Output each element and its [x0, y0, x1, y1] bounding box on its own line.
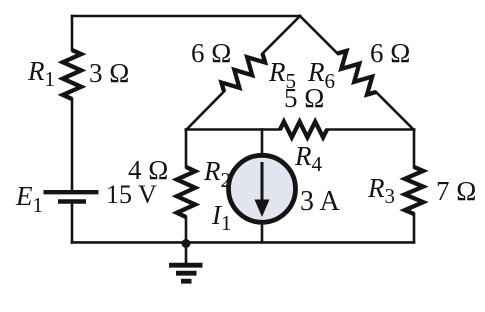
label E1	[16, 183, 43, 210]
wire left diagonal upper segment	[263, 16, 301, 54]
wire R2 bottom stub	[185, 217, 188, 242]
wire middle rail right of R4	[327, 128, 414, 131]
label 4 ohm	[128, 157, 168, 184]
label R4	[295, 143, 322, 170]
resistor R4	[280, 122, 327, 138]
current source arrow shaft	[261, 162, 264, 203]
wire R3 bottom stub	[413, 214, 416, 242]
resistor R5	[221, 54, 265, 92]
wire right diagonal lower segment	[376, 92, 414, 130]
wire R3 top stub	[413, 130, 416, 168]
label I1	[212, 202, 232, 229]
label 7 ohm	[436, 178, 476, 205]
label R5	[269, 59, 296, 86]
ground bar 2	[176, 271, 197, 276]
wire R1 bottom to battery	[71, 99, 74, 190]
wire right diagonal upper segment	[300, 16, 338, 54]
resistor R6	[338, 51, 377, 95]
wire current source bottom stub	[261, 224, 264, 242]
label R1	[28, 58, 55, 85]
wire battery to bottom rail	[71, 204, 74, 243]
label R2	[204, 158, 231, 185]
label 3 A	[300, 188, 340, 216]
wire left diagonal lower segment	[186, 92, 224, 131]
label R3	[368, 175, 395, 202]
ground bar 1	[169, 263, 203, 268]
wire current source top stub	[261, 130, 264, 155]
ground bar 3	[181, 279, 192, 284]
wire left branch top stub	[71, 16, 74, 50]
resistor R3	[405, 167, 423, 214]
label 6 ohm left	[191, 40, 231, 67]
ground stem	[185, 242, 188, 263]
junction node dot	[182, 239, 191, 248]
wire middle rail left of R4	[186, 128, 280, 131]
battery E1 long plate	[44, 190, 99, 194]
wire bottom rail	[72, 241, 414, 244]
current source arrowhead	[255, 200, 270, 218]
label 5 ohm	[284, 85, 324, 112]
current source I1 circle	[229, 155, 296, 222]
wire top rail	[72, 15, 300, 18]
label 3 ohm	[89, 60, 129, 87]
battery E1 short plate	[58, 199, 86, 203]
resistor R2	[177, 167, 195, 217]
wire R2 top stub	[185, 130, 188, 168]
resistor R1	[63, 50, 81, 99]
label 6 ohm right	[370, 40, 410, 67]
label R6	[308, 59, 335, 86]
label 15 V	[106, 182, 157, 208]
